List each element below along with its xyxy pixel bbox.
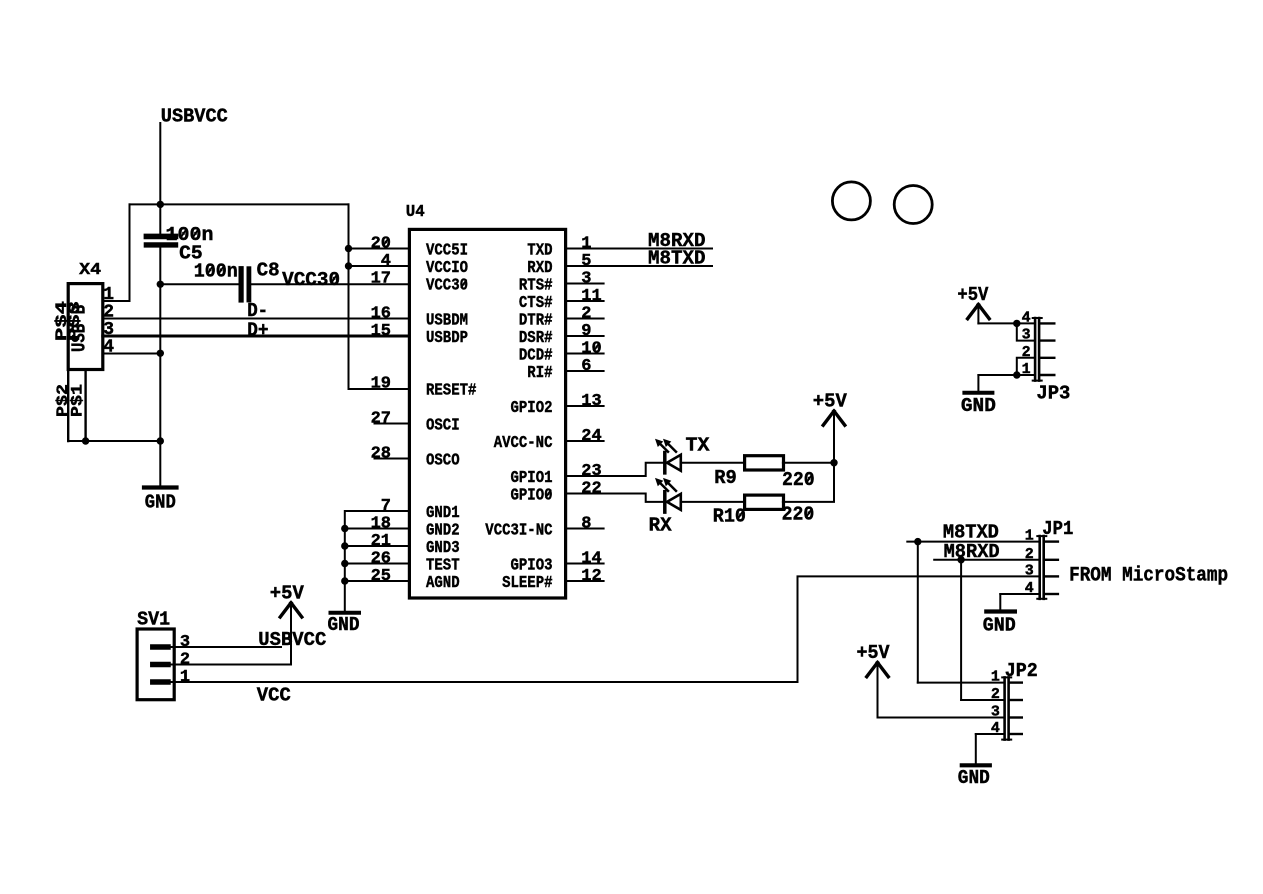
svg-text:5: 5 [581, 252, 591, 271]
svg-text:USBVCC: USBVCC [161, 106, 228, 128]
svg-text:16: 16 [371, 305, 391, 324]
svg-text:OSCI: OSCI [426, 417, 460, 436]
svg-text:+5V: +5V [813, 391, 848, 413]
svg-text:FROM MicroStamp: FROM MicroStamp [1069, 565, 1228, 588]
svg-text:GND3: GND3 [426, 539, 460, 558]
svg-text:X4: X4 [79, 261, 101, 280]
svg-text:DTR#: DTR# [519, 312, 553, 331]
svg-text:7: 7 [381, 497, 391, 516]
svg-text:19: 19 [371, 375, 391, 394]
svg-text:12: 12 [581, 567, 601, 586]
svg-text:4: 4 [1025, 580, 1034, 597]
svg-text:220: 220 [782, 469, 815, 491]
svg-text:D+: D+ [247, 320, 268, 342]
svg-text:1: 1 [180, 668, 190, 687]
svg-text:VCC3I-NC: VCC3I-NC [485, 522, 552, 541]
svg-text:+5V: +5V [957, 284, 989, 306]
svg-text:2: 2 [1022, 344, 1031, 361]
svg-text:18: 18 [371, 515, 391, 534]
svg-text:21: 21 [371, 532, 391, 551]
svg-text:28: 28 [371, 445, 391, 464]
svg-text:JP1: JP1 [1042, 518, 1073, 540]
svg-text:C8: C8 [257, 260, 280, 282]
svg-text:2: 2 [581, 305, 591, 324]
svg-text:GPIO1: GPIO1 [511, 469, 553, 488]
svg-text:RTS#: RTS# [519, 277, 553, 296]
svg-text:2: 2 [180, 651, 190, 670]
svg-text:3: 3 [1022, 327, 1031, 344]
svg-text:CTS#: CTS# [519, 294, 553, 313]
svg-text:GND2: GND2 [426, 522, 460, 541]
svg-text:26: 26 [371, 550, 391, 569]
svg-text:2: 2 [991, 686, 1000, 703]
svg-text:25: 25 [371, 567, 391, 586]
svg-text:TEST: TEST [426, 557, 460, 576]
svg-text:27: 27 [371, 410, 391, 429]
svg-text:GND: GND [145, 492, 176, 514]
svg-text:VCC30: VCC30 [282, 269, 340, 291]
svg-text:P$3: P$3 [66, 301, 84, 341]
svg-text:8: 8 [581, 515, 591, 534]
svg-text:4: 4 [381, 252, 391, 271]
svg-text:VCCIO: VCCIO [426, 259, 468, 278]
svg-text:4: 4 [991, 720, 1000, 737]
svg-text:U4: U4 [406, 203, 425, 222]
svg-text:JP3: JP3 [1036, 382, 1070, 404]
svg-text:RX: RX [649, 515, 673, 537]
svg-text:GPIO3: GPIO3 [511, 557, 553, 576]
svg-text:D-: D- [247, 300, 268, 322]
svg-text:3: 3 [1025, 562, 1034, 579]
svg-text:3: 3 [581, 270, 591, 289]
svg-text:DSR#: DSR# [519, 329, 553, 348]
svg-text:RXD: RXD [527, 259, 552, 278]
svg-text:6: 6 [581, 357, 591, 376]
svg-text:USBDP: USBDP [426, 329, 468, 348]
svg-text:GND: GND [983, 614, 1016, 636]
svg-text:3: 3 [180, 633, 190, 652]
svg-text:USBDM: USBDM [426, 312, 468, 331]
svg-text:17: 17 [371, 270, 391, 289]
svg-text:14: 14 [581, 550, 601, 569]
svg-text:4: 4 [103, 338, 114, 358]
svg-text:11: 11 [581, 287, 601, 306]
svg-text:4: 4 [1022, 309, 1031, 326]
svg-text:15: 15 [371, 322, 391, 341]
svg-text:23: 23 [581, 462, 601, 481]
svg-text:TXD: TXD [527, 242, 552, 261]
svg-text:M8TXD: M8TXD [648, 248, 706, 270]
svg-text:P$1: P$1 [69, 384, 87, 417]
svg-text:24: 24 [581, 427, 601, 446]
svg-text:TX: TX [686, 435, 711, 457]
svg-text:OSCO: OSCO [426, 452, 460, 471]
svg-text:1: 1 [581, 235, 591, 254]
svg-text:9: 9 [581, 322, 591, 341]
svg-text:SV1: SV1 [137, 609, 170, 631]
svg-text:22: 22 [581, 480, 601, 499]
svg-text:DCD#: DCD# [519, 347, 553, 366]
svg-text:R10: R10 [713, 505, 746, 527]
svg-text:3: 3 [991, 704, 1000, 721]
svg-text:VCC5I: VCC5I [426, 242, 468, 261]
svg-text:GND1: GND1 [426, 504, 460, 523]
svg-text:+5V: +5V [857, 642, 891, 664]
svg-text:R9: R9 [714, 467, 737, 489]
svg-text:220: 220 [782, 504, 815, 526]
svg-text:GND: GND [958, 767, 990, 789]
svg-text:+5V: +5V [270, 582, 305, 604]
svg-text:JP2: JP2 [1005, 660, 1038, 682]
svg-text:AVCC-NC: AVCC-NC [494, 434, 553, 453]
svg-text:2: 2 [1025, 546, 1034, 563]
svg-text:RI#: RI# [527, 364, 552, 383]
svg-text:GPIO2: GPIO2 [511, 399, 553, 418]
svg-text:1: 1 [1025, 528, 1034, 545]
svg-text:USBVCC: USBVCC [258, 629, 326, 651]
svg-text:1: 1 [1022, 361, 1031, 378]
svg-text:AGND: AGND [426, 574, 460, 593]
svg-text:M8RXD: M8RXD [944, 541, 1000, 563]
svg-text:13: 13 [581, 392, 601, 411]
svg-text:GND: GND [961, 395, 996, 417]
svg-text:VCC: VCC [257, 684, 291, 706]
svg-text:GND: GND [328, 614, 360, 636]
svg-text:SLEEP#: SLEEP# [502, 574, 552, 593]
svg-text:100n: 100n [194, 260, 238, 282]
svg-text:1: 1 [991, 669, 1000, 686]
svg-text:RESET#: RESET# [426, 382, 476, 401]
